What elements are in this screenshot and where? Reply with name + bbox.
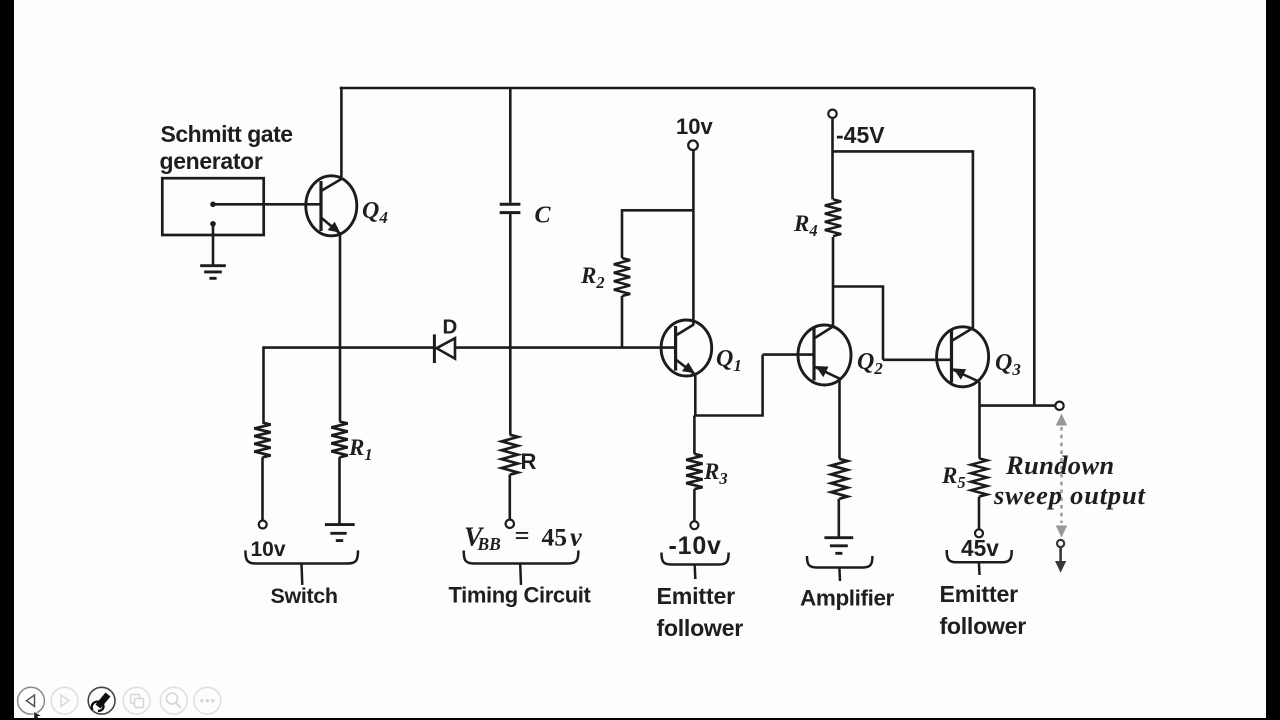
- label R2: [580, 263, 605, 292]
- svg-text:Switch: Switch: [271, 584, 338, 608]
- label D: [443, 316, 458, 339]
- svg-text:sweep output: sweep output: [993, 480, 1147, 510]
- svg-text:45v: 45v: [961, 535, 999, 561]
- brace Timing Circuit: [464, 551, 579, 585]
- wire left switch branch vertical: [262, 346, 265, 422]
- terminal 10v top: [688, 141, 698, 151]
- wire Q1 emitter junction to R3: [693, 375, 696, 454]
- player button more: [194, 687, 221, 714]
- label Q4: [362, 198, 388, 227]
- brace Emitter follower (R3): [662, 553, 729, 580]
- label R4: [793, 211, 818, 240]
- label Timing Circuit: [449, 583, 592, 608]
- svg-text:45: 45: [542, 523, 568, 552]
- player button zoom: [160, 687, 187, 714]
- Schmitt gate generator box: [162, 178, 263, 235]
- svg-text:-10v: -10v: [669, 532, 722, 560]
- label R5: [941, 463, 966, 492]
- label Schmitt gate generator: [160, 121, 293, 174]
- wire -45V terminal lead: [831, 118, 834, 200]
- wire R4 junction to Q3 base: [833, 285, 951, 360]
- label 45v: [961, 535, 999, 561]
- wire top rail to capacitor C: [509, 88, 512, 203]
- label -45V: [836, 122, 885, 148]
- svg-text:follower: follower: [940, 613, 1027, 639]
- label Q3: [995, 350, 1021, 379]
- arrow rundown sweep dashed indicator: [1056, 414, 1067, 538]
- svg-text:R2: R2: [580, 263, 605, 292]
- wire Q3 emitter down through output node to R5: [978, 382, 981, 459]
- wire R5 bottom to 45v terminal: [978, 497, 981, 530]
- label R3: [703, 459, 728, 488]
- transistor Q3: [937, 327, 989, 387]
- terminal VBB: [506, 520, 514, 528]
- resistor R3: [686, 454, 702, 489]
- wire diode to Q1 base: [455, 346, 676, 349]
- label Amplifier: [800, 586, 895, 611]
- transistor Q2: [798, 325, 851, 385]
- wire R2 top to 10v column: [622, 209, 693, 212]
- svg-text:Q2: Q2: [857, 349, 883, 378]
- node dot pin1 of Schmitt box: [210, 202, 216, 208]
- label Q2: [857, 349, 883, 378]
- resistor R (timing): [502, 435, 518, 475]
- svg-text:Emitter: Emitter: [657, 583, 736, 609]
- svg-text:R4: R4: [793, 211, 818, 240]
- wire amplifier resistor to ground: [837, 499, 840, 538]
- brace Switch: [245, 550, 358, 585]
- wire Q2 emitter to amplifier resistor: [838, 379, 841, 459]
- label Rundown sweep output: [993, 450, 1147, 510]
- svg-text:R5: R5: [941, 463, 966, 492]
- svg-text:R: R: [521, 449, 537, 474]
- svg-text:Schmitt gate: Schmitt gate: [161, 121, 293, 147]
- arrow Q1 emitter (NPN): [682, 362, 695, 373]
- label 10v switch: [251, 538, 286, 561]
- resistor amplifier emitter: [831, 459, 847, 499]
- resistor R2: [614, 258, 630, 296]
- label R (timing): [521, 449, 537, 474]
- capacitor C plates: [500, 204, 521, 212]
- transistor Q4: [306, 176, 357, 236]
- wire Q1 emitter to Q2 base link: [695, 355, 815, 417]
- player button pen: [88, 687, 115, 714]
- svg-text:C: C: [535, 203, 552, 229]
- svg-text:Q4: Q4: [362, 198, 388, 227]
- svg-text:R1: R1: [348, 435, 373, 464]
- svg-text:D: D: [443, 316, 458, 339]
- transistor Q1: [661, 320, 712, 376]
- svg-text:v: v: [570, 522, 582, 552]
- terminal -45V: [828, 110, 836, 118]
- wire Q4 collector to top rail: [340, 87, 343, 180]
- label Q1: [716, 346, 742, 375]
- arrow output marker: [1055, 540, 1066, 573]
- wire capacitor C down through node to resistor R: [509, 214, 512, 435]
- wire 10v terminal to Q1 collector: [692, 150, 695, 325]
- wire R1 bottom to ground: [338, 457, 341, 524]
- terminal -10v: [690, 521, 698, 529]
- wire switch resistor to 10v terminal: [261, 457, 264, 520]
- label Switch: [271, 584, 338, 608]
- wire R2 top lead: [621, 209, 624, 258]
- player button back: [18, 687, 45, 714]
- label C: [535, 203, 552, 229]
- wire R2 bottom lead: [621, 296, 624, 348]
- wire R bottom to VBB terminal: [508, 475, 511, 520]
- wire Q4 emitter down to R1: [339, 233, 342, 422]
- label Emitter follower (R3): [657, 583, 744, 641]
- ground below amplifier resistor: [824, 538, 853, 554]
- label R1: [348, 435, 373, 464]
- svg-text:Timing Circuit: Timing Circuit: [449, 583, 592, 608]
- diode D: [434, 334, 455, 363]
- terminal rundown sweep output: [1055, 402, 1063, 410]
- wire top rail: [340, 87, 1035, 90]
- wire -45V rail to Q3 collector: [833, 150, 973, 153]
- label -10v: [669, 532, 722, 560]
- label Emitter follower (R5): [940, 581, 1027, 639]
- brace Amplifier: [807, 556, 872, 581]
- resistor (switch branch): [254, 423, 270, 458]
- ground below R1: [325, 525, 355, 541]
- svg-text:-45V: -45V: [836, 122, 885, 148]
- wire R3 bottom to -10v terminal: [693, 489, 696, 521]
- terminal 45v: [975, 529, 983, 537]
- svg-text:Emitter: Emitter: [940, 581, 1019, 607]
- arrow Q3 emitter (PNP): [953, 368, 966, 379]
- resistor R1: [331, 422, 347, 458]
- wire Schmitt box pin2 to ground: [212, 224, 215, 266]
- brace Emitter follower (R5): [947, 550, 1012, 575]
- wire top rail right side down to output node: [1033, 88, 1036, 406]
- resistor R5: [971, 458, 987, 496]
- svg-text:R3: R3: [703, 459, 728, 488]
- wire main horizontal node: diode row left segment: [264, 346, 435, 349]
- wire Q2 collector up to R4 junction: [832, 237, 835, 327]
- svg-text:Amplifier: Amplifier: [800, 586, 895, 611]
- svg-text:10v: 10v: [251, 538, 286, 561]
- player button slides: [123, 687, 150, 714]
- player button forward: [51, 687, 78, 714]
- svg-text:10v: 10v: [676, 114, 713, 139]
- svg-text:Q3: Q3: [995, 350, 1021, 379]
- wire Q3 collector up to -45V rail: [972, 150, 975, 328]
- svg-text:Q1: Q1: [716, 346, 742, 375]
- svg-text:generator: generator: [160, 148, 263, 174]
- ground below Schmitt box: [200, 266, 226, 279]
- arrow Q4 emitter (NPN): [328, 222, 341, 233]
- arrow Q2 emitter (PNP): [816, 366, 829, 377]
- svg-text:=: =: [515, 520, 530, 550]
- terminal 10v switch: [259, 521, 267, 529]
- mouse cursor: [34, 712, 42, 720]
- node dot pin2 of Schmitt box: [210, 221, 216, 227]
- label VBB = 45v: [464, 520, 582, 554]
- label 10v top: [676, 114, 713, 139]
- wire Schmitt box output to Q4 base: [213, 203, 321, 206]
- resistor R4: [825, 199, 841, 236]
- svg-text:BB: BB: [477, 534, 502, 554]
- svg-text:follower: follower: [657, 615, 744, 641]
- wire output node horizontal to terminal: [979, 404, 1055, 407]
- svg-text:Rundown: Rundown: [1005, 450, 1115, 480]
